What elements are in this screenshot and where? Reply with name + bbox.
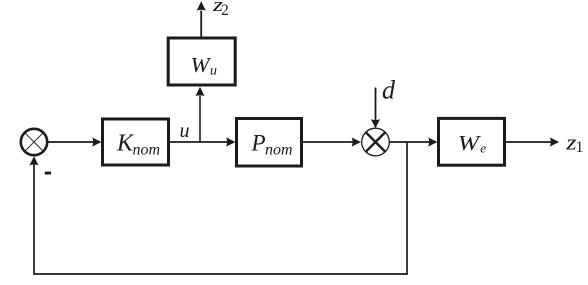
summing junction S1 xyxy=(21,129,47,155)
label z1 xyxy=(565,130,583,156)
wire P_nom to S2 xyxy=(303,137,361,146)
wire K_nom to P_nom xyxy=(170,137,236,146)
wire S1 to K_nom xyxy=(47,137,101,146)
node u branch wire up to W_u xyxy=(195,87,204,142)
svg-text:e: e xyxy=(480,140,486,155)
feedback wire from node after S2 down, across bottom, and up into S1 xyxy=(29,142,407,274)
svg-text:1: 1 xyxy=(576,139,584,156)
block W_e xyxy=(439,118,505,165)
wire W_u to z2 output xyxy=(197,1,206,36)
svg-text:P: P xyxy=(251,131,266,156)
block W_u xyxy=(168,38,235,85)
label P_nom xyxy=(251,131,293,159)
label W_e xyxy=(458,131,487,155)
svg-text:2: 2 xyxy=(221,2,229,19)
label z2 xyxy=(212,0,229,19)
block P_nom xyxy=(237,119,302,167)
disturbance input d arrow xyxy=(371,88,380,129)
svg-text:nom: nom xyxy=(133,142,161,159)
svg-text:W: W xyxy=(458,131,482,155)
label K_nom xyxy=(116,131,160,159)
svg-text:d: d xyxy=(382,75,396,104)
svg-text:u: u xyxy=(210,64,217,79)
summing junction S2 xyxy=(362,128,390,156)
wire W_e to z1 output xyxy=(506,137,559,146)
wire S2 to W_e xyxy=(389,137,437,146)
label W_u xyxy=(191,53,218,79)
svg-text:nom: nom xyxy=(265,142,293,159)
block K_nom xyxy=(103,119,169,165)
svg-text:W: W xyxy=(191,53,213,77)
svg-text:u: u xyxy=(180,120,190,142)
minus sign at S1 xyxy=(45,172,51,175)
